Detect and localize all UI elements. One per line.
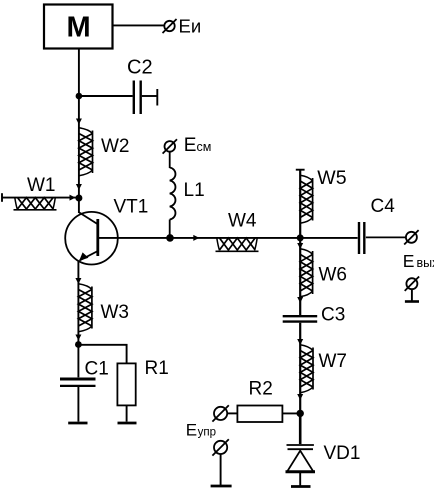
resistor R1 <box>117 358 168 422</box>
winding W1 <box>2 175 79 210</box>
block M <box>44 5 113 49</box>
wire top with tick <box>296 170 305 238</box>
wire node to R1 <box>78 345 126 364</box>
terminal Евых upper <box>403 230 434 271</box>
svg-text:С4: С4 <box>371 196 396 217</box>
winding W6 <box>300 249 347 297</box>
wire node to W2 <box>78 96 80 198</box>
node junction C2 <box>76 93 83 100</box>
winding W3 <box>78 284 129 332</box>
svg-text:W3: W3 <box>101 302 130 323</box>
svg-text:W5: W5 <box>317 167 346 189</box>
node right junction <box>297 234 304 241</box>
winding W7 <box>300 345 347 393</box>
arrow W1 into node <box>70 195 76 201</box>
terminal Еи <box>163 16 202 37</box>
wire emitter down <box>77 261 79 345</box>
resistor R2 <box>227 379 300 422</box>
arrow above W7 <box>297 339 303 345</box>
svg-text:W7: W7 <box>319 351 348 372</box>
svg-text:VD1: VD1 <box>324 443 361 464</box>
node L1 junction <box>166 234 174 242</box>
svg-text:М: М <box>67 11 91 43</box>
capacitor C1 <box>60 345 109 422</box>
arrow above W3 <box>75 278 81 284</box>
winding W5 <box>300 167 347 223</box>
capacitor C3 <box>283 305 346 326</box>
svg-text:С3: С3 <box>321 305 345 326</box>
svg-text:С2: С2 <box>127 57 153 79</box>
terminal Еупр lower with ground <box>211 439 232 486</box>
terminal Евых lower with ground <box>405 277 419 302</box>
terminal Есм <box>163 135 212 156</box>
svg-text:W4: W4 <box>228 210 257 231</box>
arrow above W6 <box>297 243 303 249</box>
inductor L1 <box>170 152 205 238</box>
ground under VD1 <box>291 485 311 488</box>
wire node to transistor <box>78 198 80 213</box>
wire M to Eu terminal <box>113 24 164 26</box>
svg-text:W2: W2 <box>101 136 130 157</box>
diode VD1 <box>286 443 361 486</box>
wire node to VD1 <box>299 413 302 444</box>
svg-text:VT1: VT1 <box>114 197 149 218</box>
winding W4 <box>216 210 259 251</box>
main wire base to C4 <box>99 237 358 239</box>
arrow above W2 <box>76 119 82 125</box>
svg-text:С1: С1 <box>85 359 109 380</box>
winding W2 <box>79 128 130 176</box>
arrow below W2 <box>76 184 82 190</box>
arrow below W3 <box>75 335 81 341</box>
ground under C1 <box>68 422 87 425</box>
arrow on main wire <box>193 235 199 241</box>
terminal Еупр upper <box>212 405 228 421</box>
svg-text:L1: L1 <box>184 180 205 201</box>
wire W6 to C3 <box>299 238 301 315</box>
arrow below W7 <box>297 394 303 400</box>
capacitor C4 <box>359 196 406 254</box>
svg-text:Еи: Еи <box>179 16 202 37</box>
transistor VT1 <box>65 197 148 265</box>
svg-text:R1: R1 <box>145 358 169 379</box>
wire M bottom to node <box>78 49 80 97</box>
svg-text:W1: W1 <box>27 175 56 196</box>
capacitor C2 <box>79 57 157 115</box>
svg-text:R2: R2 <box>249 379 273 400</box>
node R2 junction <box>297 410 304 417</box>
node base junction <box>75 195 82 202</box>
svg-text:W6: W6 <box>319 265 348 286</box>
wire C3 to node <box>299 323 301 414</box>
ground under R1 <box>118 422 137 425</box>
node emitter junction <box>75 341 82 348</box>
arrow below W6 <box>297 297 303 303</box>
